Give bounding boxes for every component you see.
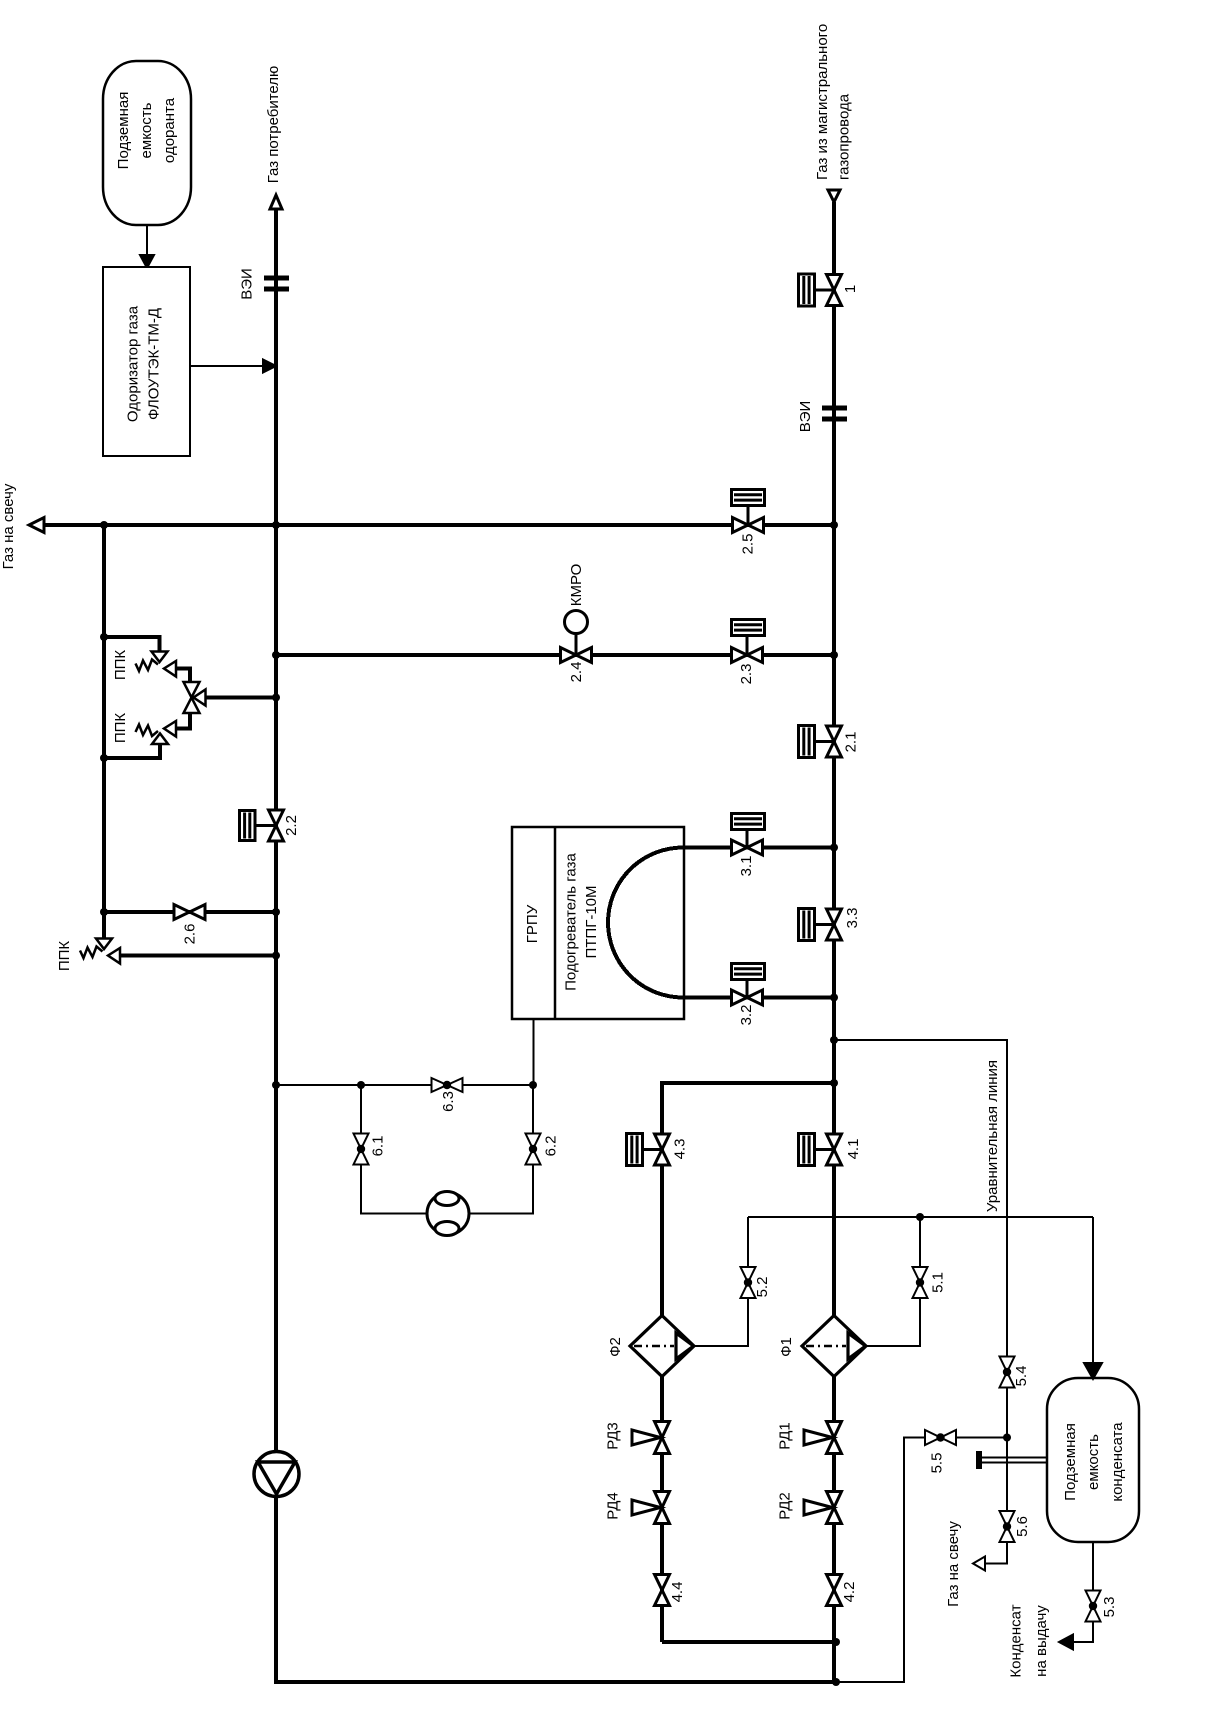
wire filter F1 drain via valve 5.1: [865, 1217, 920, 1346]
wire bottom reduction tie y=1642: [662, 1640, 836, 1644]
node junction (834,847.5): [830, 844, 838, 852]
wire condensate drain header y=1217: [748, 1216, 1093, 1218]
node junction (104,758): [100, 754, 108, 762]
node junction (276,955.5): [272, 952, 280, 960]
svg-text:6.2: 6.2: [543, 1136, 560, 1157]
valve 3.1 (motorized, heater inlet): [732, 814, 765, 856]
svg-text:РД4: РД4: [605, 1492, 622, 1520]
valve 5.6: [1000, 1511, 1015, 1542]
arrow odorizer to consumer line (solid, right): [263, 360, 276, 373]
svg-text:емкость: емкость: [1085, 1434, 1102, 1490]
svg-text:4.2: 4.2: [841, 1582, 858, 1603]
valve 6.3: [432, 1078, 463, 1092]
node junction (834,525): [830, 521, 838, 529]
valve 2.4 with KMPO pilot (control valve): [561, 611, 592, 663]
regulator RD1: [804, 1422, 842, 1454]
wire PPK1 outlet to three-way: [176, 669, 190, 684]
wire heater fuel line: [533, 1019, 535, 1085]
gas heater GRPU box (Подогреватель газа ПТПГ-10М): [512, 827, 684, 1019]
wire equalizing line: [834, 1040, 1007, 1564]
arrow into condensate tank (solid, down): [1084, 1363, 1102, 1379]
wire top vent header y=525: [42, 523, 834, 527]
relief valve PPK1: [136, 652, 177, 677]
wire PPK3 outlet: [119, 954, 276, 958]
svg-text:емкость: емкость: [138, 102, 155, 158]
wire left reduction line branch: [662, 1083, 834, 1642]
svg-text:Подземная: Подземная: [115, 92, 132, 170]
svg-text:Подземная: Подземная: [1062, 1423, 1079, 1501]
relief valve PPK2: [136, 721, 177, 744]
wire tank filler double line: [982, 1458, 1048, 1463]
svg-text:ППК: ППК: [112, 713, 129, 744]
svg-text:2.1: 2.1: [843, 732, 860, 753]
three-way valve (relief selector): [184, 682, 206, 713]
wire PPK2 outlet to three-way: [176, 713, 190, 729]
valve 5.1: [913, 1267, 928, 1298]
node junction (276,697.5): [272, 694, 280, 702]
wire heater coil arc: [608, 848, 683, 998]
wire valve 5.5 line to bottom main: [836, 1438, 1007, 1683]
wire condensate tank feed: [1092, 1217, 1094, 1368]
svg-text:3.1: 3.1: [738, 856, 755, 877]
valve 5.2: [741, 1267, 756, 1298]
svg-text:5.6: 5.6: [1014, 1516, 1031, 1537]
svg-text:3.2: 3.2: [738, 1005, 755, 1026]
filter F1: [802, 1316, 866, 1377]
svg-text:Одоризатор газа: Одоризатор газа: [125, 305, 142, 422]
regulator RD3: [632, 1422, 670, 1454]
arrow gas to vent bottom (open, left): [973, 1557, 985, 1571]
svg-text:6.1: 6.1: [370, 1136, 387, 1157]
wire PPK bridge lower inlet: [104, 743, 160, 758]
svg-text:Газ на свечу: Газ на свечу: [945, 1521, 962, 1607]
svg-text:5.3: 5.3: [1101, 1597, 1118, 1618]
svg-text:2.6: 2.6: [182, 924, 199, 945]
valve 2.1 (motorized, on main line): [799, 726, 842, 758]
svg-text:Конденсат: Конденсат: [1008, 1604, 1025, 1677]
node junction (836,1682): [832, 1678, 840, 1686]
node junction (104,525): [100, 521, 108, 529]
node junction (834,655): [830, 651, 838, 659]
valve 4.4: [655, 1575, 670, 1606]
svg-text:6.3: 6.3: [440, 1091, 457, 1112]
node junction (533,1085): [529, 1081, 537, 1089]
wire filter F2 drain via valve 5.2: [694, 1217, 748, 1346]
condensate tank (Подземная емкость конденсата): [1047, 1378, 1139, 1542]
svg-text:ПТПГ-10М: ПТПГ-10М: [583, 885, 600, 958]
svg-text:КМРО: КМРО: [568, 564, 585, 607]
node junction (834,1040): [830, 1036, 838, 1044]
svg-text:5.2: 5.2: [754, 1277, 771, 1298]
svg-text:Уравнительная линия: Уравнительная линия: [984, 1060, 1001, 1212]
valve 6.1: [354, 1134, 369, 1165]
valve 2.5 (motorized, top header): [732, 490, 765, 533]
node junction (920,1217): [916, 1213, 924, 1221]
wire odorant tank to odorizer: [146, 225, 148, 257]
insulating joint VEI (right line): [822, 406, 847, 411]
wire three-way outlet to main: [205, 696, 276, 700]
svg-text:ВЭИ: ВЭИ: [239, 268, 256, 300]
regulator RD4: [632, 1492, 670, 1524]
svg-text:ППК: ППК: [56, 941, 73, 972]
svg-text:5.1: 5.1: [930, 1272, 947, 1293]
arrow odorant tank to odorizer (solid, down): [140, 255, 154, 268]
wire meter loop header y=1085: [276, 1084, 533, 1086]
svg-text:на выдачу: на выдачу: [1033, 1605, 1050, 1677]
arrow gas inlet (open, down) node Газ из магистрального: [828, 190, 840, 202]
svg-text:газопровода: газопровода: [836, 93, 853, 180]
valve 2.2 (motorized, on vent line): [240, 810, 284, 841]
svg-text:ППК: ППК: [112, 650, 129, 681]
svg-text:4.3: 4.3: [672, 1139, 689, 1160]
filter F2: [630, 1316, 694, 1377]
relief valve PPK3: [80, 939, 120, 964]
valve 5.5: [925, 1430, 956, 1445]
arrow gas to consumer (open, up): [270, 195, 282, 209]
svg-text:Газ из магистрального: Газ из магистрального: [814, 24, 831, 180]
svg-text:конденсата: конденсата: [1109, 1422, 1126, 1502]
svg-text:ВЭИ: ВЭИ: [797, 401, 814, 433]
svg-text:одоранта: одоранта: [161, 97, 178, 163]
valve 3.2 (motorized, heater outlet): [732, 964, 765, 1006]
node junction (836,1642): [832, 1638, 840, 1646]
odorizer unit box (Одоризатор газа ФЛОУТЭК-ТМ-Д): [103, 267, 190, 456]
node junction (276,912): [272, 908, 280, 916]
svg-text:4.4: 4.4: [669, 1582, 686, 1603]
gas flow meter (turbine): [427, 1192, 469, 1236]
odorant tank (Подземная емкость одоранта): [103, 61, 191, 225]
wire left relief branch x=104: [102, 525, 106, 939]
node junction (104,637): [100, 633, 108, 641]
valve 6.2: [526, 1134, 541, 1165]
valve 4.3 (motorized, reduction line 2): [627, 1134, 670, 1166]
node junction (276,1085): [272, 1081, 280, 1089]
insulating joint VEI (left line): [264, 276, 289, 281]
svg-text:РД1: РД1: [777, 1422, 794, 1450]
node junction (361,1085): [357, 1081, 365, 1089]
valve 5.3: [1086, 1591, 1101, 1622]
arrow condensate delivery (solid, left): [1059, 1635, 1073, 1650]
valve 2.6 (bypass): [174, 905, 205, 920]
regulator RD2: [804, 1492, 842, 1524]
svg-text:Подогреватель газа: Подогреватель газа: [563, 853, 580, 991]
arrow gas to vent top-left (open, left): [29, 518, 44, 533]
svg-text:Ф1: Ф1: [778, 1337, 795, 1357]
wire meter branch left: [361, 1085, 428, 1214]
svg-text:РД2: РД2: [777, 1492, 794, 1520]
wire heater top pipe: [679, 846, 834, 850]
valve 4.2: [827, 1575, 842, 1606]
wire PPK bridge upper inlet: [104, 637, 160, 652]
svg-text:2.5: 2.5: [740, 534, 757, 555]
valve 1 (motorized, on inlet line): [799, 274, 842, 306]
valve 3.3 (motorized, on main line): [799, 909, 842, 941]
svg-text:РД3: РД3: [605, 1422, 622, 1450]
wire condensate tank bottom to valve 5.3: [1062, 1542, 1093, 1642]
svg-text:2.2: 2.2: [283, 815, 300, 836]
node junction (834,997.5): [830, 994, 838, 1002]
flow computer / vent device symbol on vent line: [254, 1452, 299, 1497]
svg-text:5.4: 5.4: [1013, 1366, 1030, 1387]
svg-text:3.3: 3.3: [844, 908, 861, 929]
svg-text:2.4: 2.4: [568, 662, 585, 683]
wire main inlet line (right, x=834): [832, 202, 836, 1682]
node junction (276,655): [272, 651, 280, 659]
wire heater bottom pipe: [679, 996, 834, 1000]
svg-text:Газ на свечу: Газ на свечу: [0, 483, 17, 569]
node junction (104,912): [100, 908, 108, 916]
svg-text:2.3: 2.3: [738, 664, 755, 685]
svg-text:1: 1: [842, 285, 859, 293]
svg-text:5.5: 5.5: [929, 1453, 946, 1474]
node junction (276,525): [272, 521, 280, 529]
svg-text:Газ потребителю: Газ потребителю: [265, 66, 282, 184]
svg-text:4.1: 4.1: [845, 1139, 862, 1160]
node junction (834,1083): [830, 1079, 838, 1087]
valve 2.3 (motorized, regulator header): [732, 620, 765, 663]
wire regulator header y=655 (valves 2.4, 2.3): [276, 653, 834, 657]
wire outlet/vent main line (left, x=276) with bottom run: [276, 207, 836, 1682]
wire meter branch right: [468, 1085, 533, 1214]
valve 4.1 (motorized, reduction line 1): [799, 1134, 842, 1166]
svg-text:ГРПУ: ГРПУ: [524, 904, 541, 943]
valve 5.4: [1000, 1357, 1015, 1388]
svg-text:ФЛОУТЭК-ТМ-Д: ФЛОУТЭК-ТМ-Д: [146, 308, 163, 420]
node junction (1007,1437.5): [1003, 1434, 1011, 1442]
tank filler cap: [976, 1451, 982, 1469]
wire odorizer connection: [190, 365, 266, 367]
svg-text:Ф2: Ф2: [607, 1337, 624, 1357]
wire bypass line 2.6: [104, 910, 276, 914]
